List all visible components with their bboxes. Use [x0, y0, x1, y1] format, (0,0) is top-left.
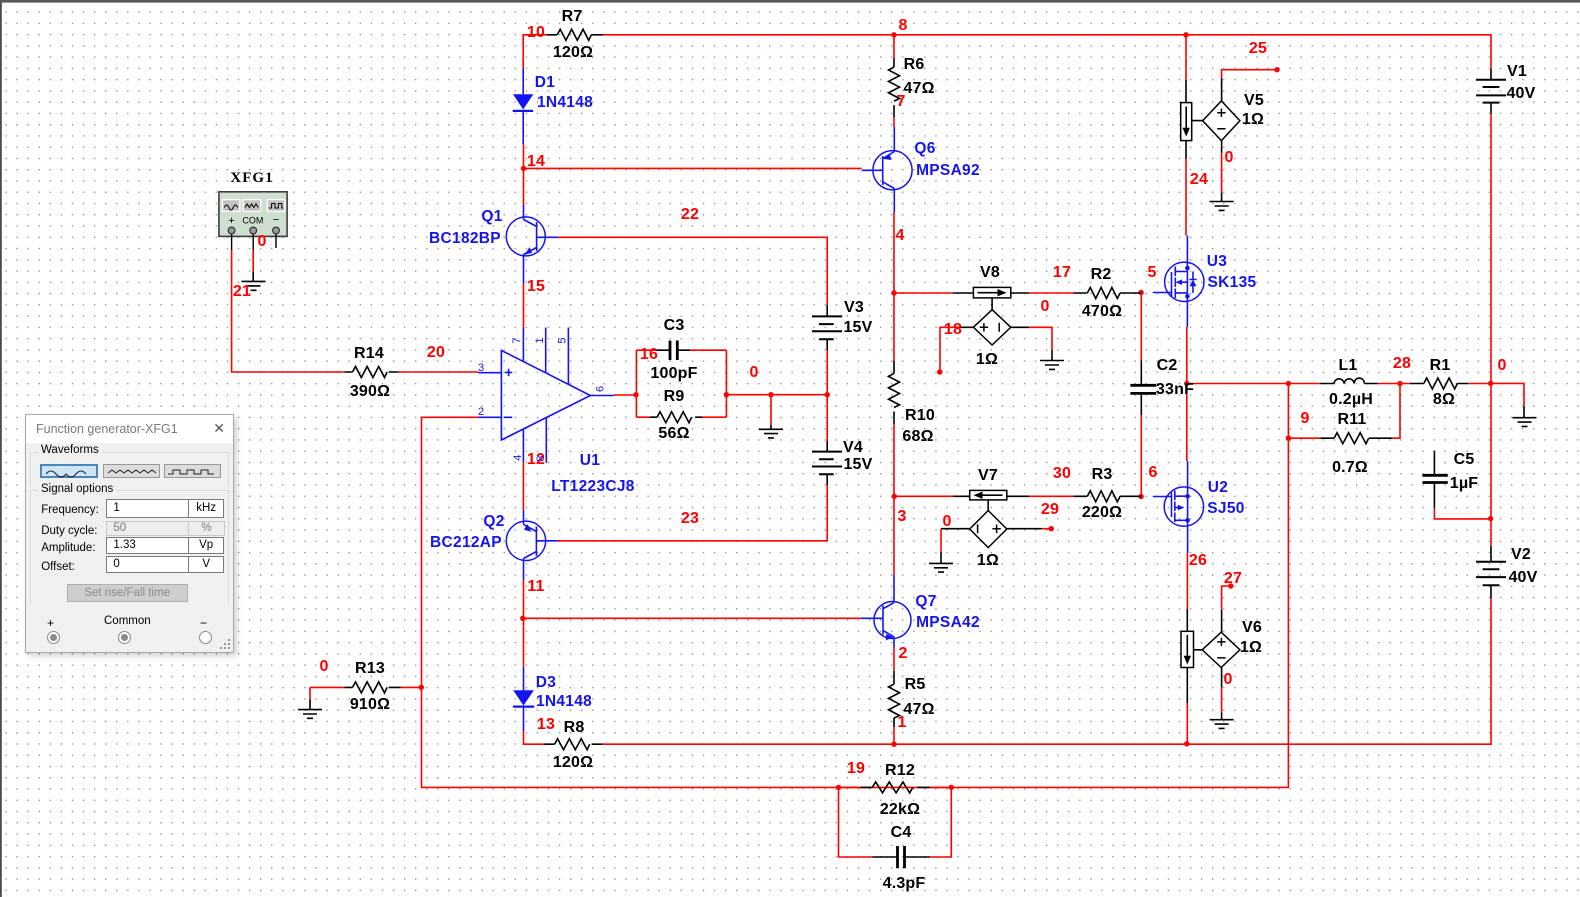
svg-text:6: 6: [595, 386, 607, 392]
svg-text:R3: R3: [1092, 466, 1113, 483]
svg-text:R5: R5: [905, 676, 926, 693]
svg-text:6: 6: [1148, 464, 1157, 481]
label R14: [350, 345, 390, 400]
svg-text:Q6: Q6: [914, 140, 935, 157]
svg-text:COM: COM: [242, 216, 263, 226]
wire net 5 R2 to U3 gate and C2: [1140, 293, 1142, 361]
label U3: [1207, 253, 1257, 291]
svg-text:V7: V7: [978, 467, 998, 484]
label U1: [551, 452, 634, 495]
ccvs V8 diamond: [959, 310, 1029, 345]
svg-text:V6: V6: [1242, 619, 1262, 636]
svg-text:27: 27: [1224, 570, 1242, 587]
wire V1 bottom down right rail: [1490, 114, 1492, 546]
svg-text:33nF: 33nF: [1156, 381, 1194, 398]
label R7: [553, 8, 593, 61]
svg-text:1: 1: [534, 337, 546, 343]
ground at V7: [929, 552, 953, 572]
wire net 14: [524, 144, 862, 205]
node 11 junction: [520, 616, 525, 621]
svg-text:C3: C3: [664, 317, 685, 334]
label R12: [880, 762, 920, 818]
svg-text:15V: 15V: [843, 319, 872, 336]
svg-text:V5: V5: [1244, 92, 1264, 109]
node 9 junction top: [1286, 381, 1291, 386]
svg-text:L1: L1: [1338, 357, 1357, 374]
svg-text:470Ω: 470Ω: [1082, 303, 1122, 320]
svg-text:56Ω: 56Ω: [658, 425, 689, 442]
resistor R12: [861, 782, 931, 793]
resistor R1: [1410, 378, 1468, 389]
ccvs V7 diamond: [941, 511, 1042, 548]
svg-text:R6: R6: [904, 56, 925, 73]
svg-text:29: 29: [1041, 501, 1059, 518]
svg-text:10: 10: [527, 24, 545, 41]
svg-text:Q1: Q1: [481, 208, 502, 225]
resistor R5: [889, 671, 900, 727]
svg-text:0.7Ω: 0.7Ω: [1332, 459, 1368, 476]
label R2: [1082, 266, 1122, 320]
svg-text:XFG1: XFG1: [230, 170, 273, 186]
wire C5 bottom: [1434, 508, 1490, 519]
label R5: [903, 676, 934, 718]
svg-text:Q2: Q2: [483, 513, 504, 530]
svg-text:40V: 40V: [1508, 569, 1537, 586]
node V3 V4 junction: [825, 392, 830, 397]
net 25 endpoint: [1274, 67, 1279, 72]
inductor L1: [1320, 378, 1378, 383]
top toolbar edge bar: [0, 0, 1580, 3]
label Q7: [915, 593, 980, 631]
svg-text:23: 23: [681, 510, 699, 527]
resistor R9: [650, 412, 702, 423]
transistor Q7: [861, 575, 911, 648]
wire net 15: [523, 284, 525, 328]
svg-text:Q7: Q7: [915, 593, 936, 610]
node 1 junction V6: [1184, 741, 1189, 746]
ground at V5: [1210, 193, 1234, 211]
svg-text:0: 0: [257, 233, 266, 250]
wire red lead R12: [839, 786, 952, 788]
svg-text:13: 13: [537, 716, 555, 733]
wire net 26 U2 source to V6 sense: [1186, 553, 1188, 744]
wire net 8 top rail: [523, 35, 1491, 69]
instrument XFG1: [219, 170, 287, 250]
mosfet U2: [1153, 461, 1204, 553]
svg-text:120Ω: 120Ω: [553, 44, 593, 61]
svg-text:1µF: 1µF: [1450, 475, 1479, 492]
label R13: [350, 660, 390, 713]
svg-text:11: 11: [527, 578, 544, 595]
wire V5 minus to ground: [1221, 153, 1223, 193]
dialog Function generator-XFG1: [25, 414, 234, 653]
battery V4: [812, 441, 842, 485]
svg-text:−: −: [273, 214, 279, 226]
node 9 junction R11: [1286, 436, 1291, 441]
svg-text:+: +: [228, 215, 234, 227]
svg-text:14: 14: [527, 153, 545, 170]
wire net 3 R10 Q7 V7: [894, 424, 953, 575]
svg-text:R12: R12: [885, 762, 915, 779]
svg-text:1: 1: [897, 714, 906, 731]
svg-text:4: 4: [512, 455, 524, 461]
resistor R13: [344, 682, 400, 693]
svg-text:22kΩ: 22kΩ: [880, 801, 920, 818]
label R3: [1082, 466, 1122, 521]
svg-text:V8: V8: [980, 264, 1000, 281]
svg-text:910Ω: 910Ω: [350, 696, 390, 713]
svg-text:C2: C2: [1157, 357, 1178, 374]
transistor Q2: [506, 511, 557, 580]
wire XFG1 com: [252, 250, 254, 272]
resistor R2: [1074, 288, 1142, 299]
svg-text:17: 17: [1053, 264, 1071, 281]
svg-text:SJ50: SJ50: [1207, 500, 1244, 517]
node 3 junction: [892, 494, 897, 499]
svg-text:8Ω: 8Ω: [1433, 391, 1455, 408]
node R13 junction: [419, 685, 424, 690]
capacitor C3: [656, 341, 690, 361]
ccvs V7 sense box: [953, 490, 1029, 510]
wire R13 to ground and node 9: [310, 687, 422, 699]
label R1: [1430, 357, 1456, 408]
op-amp U1: [478, 328, 613, 463]
svg-text:0.2µH: 0.2µH: [1329, 391, 1373, 408]
diode D3: [513, 667, 534, 731]
svg-text:C4: C4: [891, 824, 912, 841]
node 1 junction R5: [891, 742, 896, 747]
label R11: [1332, 411, 1368, 476]
label V2: [1508, 546, 1537, 586]
svg-text:5: 5: [556, 337, 568, 343]
wire net 18 stub V8 ctrl: [940, 327, 959, 372]
svg-text:C5: C5: [1454, 451, 1475, 468]
svg-text:5: 5: [1147, 264, 1156, 281]
label V7: [977, 467, 999, 569]
svg-text:V1: V1: [1507, 63, 1527, 80]
label V1: [1506, 63, 1535, 102]
svg-text:BC212AP: BC212AP: [430, 534, 502, 551]
svg-text:D3: D3: [536, 674, 556, 691]
node 6 junction: [1138, 494, 1143, 499]
svg-text:0: 0: [1497, 357, 1506, 374]
node 5 junction: [1138, 290, 1143, 295]
label U2: [1207, 479, 1244, 517]
node junction V5 column: [1183, 32, 1188, 37]
svg-text:7: 7: [896, 93, 905, 110]
transistor Q1: [506, 205, 557, 284]
svg-text:MPSA92: MPSA92: [916, 162, 980, 179]
svg-text:4.3pF: 4.3pF: [883, 875, 926, 892]
svg-text:R9: R9: [664, 388, 685, 405]
node 14 junction: [521, 166, 526, 171]
node gnd tap junction: [768, 392, 773, 397]
svg-text:3: 3: [897, 508, 906, 525]
wire net 25 stub: [1222, 70, 1277, 78]
svg-text:MPSA42: MPSA42: [916, 614, 980, 631]
label C3: [650, 317, 697, 382]
ccvs V5 diamond: [1203, 78, 1240, 153]
net 18 endpoint: [937, 369, 942, 374]
label Q2: [430, 513, 505, 551]
svg-text:R2: R2: [1091, 266, 1112, 283]
wire V8 right to ground: [1029, 327, 1052, 350]
svg-text:1Ω: 1Ω: [1242, 111, 1264, 128]
ground at R1: [1513, 406, 1537, 426]
svg-text:20: 20: [427, 344, 445, 361]
wire net 22 Q1 base to V3: [558, 237, 828, 304]
diode D1: [513, 68, 534, 144]
ccvs V8 sense box: [953, 287, 1029, 309]
svg-text:R11: R11: [1337, 411, 1366, 428]
wire XFG1 plus to R14: [232, 250, 345, 372]
svg-text:2: 2: [898, 645, 907, 662]
label R9: [658, 388, 689, 442]
wire R5 bottom: [893, 727, 895, 744]
svg-text:0: 0: [1223, 671, 1232, 688]
wire net 20 R14 to opamp pin3: [399, 371, 479, 373]
wire net 7 R6 to Q6: [893, 117, 895, 127]
svg-text:120Ω: 120Ω: [553, 754, 593, 771]
ccvs V6 sense box: [1181, 609, 1202, 703]
svg-text:2: 2: [478, 406, 484, 418]
label R6: [903, 56, 934, 97]
node 28 junction: [1397, 381, 1402, 386]
capacitor C5: [1422, 451, 1447, 508]
svg-text:68Ω: 68Ω: [902, 428, 933, 445]
svg-text:15V: 15V: [843, 456, 872, 473]
node 4 junction: [891, 290, 896, 295]
svg-text:R10: R10: [905, 407, 935, 424]
wire net 17 V8 to R2: [1029, 292, 1074, 294]
svg-text:LT1223CJ8: LT1223CJ8: [551, 478, 634, 495]
svg-text:26: 26: [1189, 552, 1207, 569]
svg-text:15: 15: [527, 278, 545, 295]
wire net 9 feedback loop: [422, 384, 1289, 788]
label Q1: [429, 208, 503, 247]
battery V2: [1476, 546, 1506, 598]
svg-text:18: 18: [944, 321, 962, 338]
svg-text:U1: U1: [580, 452, 600, 469]
svg-text:8: 8: [898, 17, 907, 34]
svg-text:SK135: SK135: [1208, 274, 1257, 291]
svg-text:8: 8: [535, 455, 547, 461]
svg-text:R13: R13: [355, 660, 385, 677]
ccvs V6 diamond: [1202, 610, 1240, 688]
battery V3: [812, 305, 842, 350]
svg-text:3: 3: [478, 362, 484, 374]
net 27 endpoint: [1228, 583, 1233, 588]
svg-text:R7: R7: [562, 8, 583, 25]
svg-text:0: 0: [942, 513, 951, 530]
node RC right junction: [724, 392, 729, 397]
label C2: [1156, 357, 1194, 398]
resistor R11: [1320, 433, 1392, 444]
svg-text:21: 21: [233, 283, 251, 300]
svg-text:9: 9: [1300, 410, 1309, 427]
svg-text:1Ω: 1Ω: [976, 351, 998, 368]
capacitor C4: [872, 846, 930, 868]
node C5 junction: [1488, 516, 1493, 521]
label V8: [976, 264, 1000, 368]
node 19 junction left: [836, 785, 841, 790]
wire net 24 V5 sense chain: [1185, 35, 1187, 236]
svg-text:1Ω: 1Ω: [977, 552, 999, 569]
left canvas border: [0, 2, 2, 897]
svg-text:22: 22: [681, 206, 699, 223]
svg-text:28: 28: [1393, 355, 1411, 372]
label C5: [1450, 451, 1479, 492]
svg-text:R14: R14: [354, 345, 384, 362]
svg-text:7: 7: [511, 337, 523, 343]
svg-text:1N4148: 1N4148: [536, 693, 592, 710]
svg-text:1N4148: 1N4148: [537, 94, 593, 111]
svg-text:V3: V3: [844, 299, 864, 316]
wire net 4 Q6 collector node: [894, 212, 953, 360]
label R10: [902, 407, 935, 445]
ground at R13: [298, 700, 322, 719]
wire V7 left to ground: [940, 529, 942, 552]
resistor R8: [545, 739, 603, 750]
ground at XFG1 com: [242, 272, 266, 291]
wire net 29 stub V7 right: [1042, 528, 1052, 530]
wire output row to L1 R1: [1187, 383, 1524, 406]
svg-text:30: 30: [1053, 465, 1071, 482]
wire net 13 D3 to R8: [524, 731, 545, 744]
wire net 27 stub: [1222, 586, 1231, 610]
net 29 endpoint: [1049, 526, 1054, 531]
svg-text:0: 0: [1224, 149, 1233, 166]
svg-text:25: 25: [1249, 40, 1267, 57]
resistor R6: [889, 58, 900, 117]
wire U3 source to U2 drain: [1186, 327, 1188, 461]
capacitor C2: [1130, 360, 1156, 415]
svg-text:V4: V4: [843, 439, 863, 456]
wire net 2 Q7 emitter to R5: [893, 648, 895, 671]
wire net 6 C2 to R3 U2 gate: [1140, 415, 1142, 497]
label C4: [883, 824, 926, 892]
battery V1: [1476, 69, 1506, 114]
label Q6: [914, 140, 980, 179]
wire net 0 opamp out row: [614, 350, 828, 425]
node 0 junction at V1 column: [1488, 381, 1493, 386]
svg-text:19: 19: [847, 760, 865, 777]
svg-text:R8: R8: [564, 719, 585, 736]
label V3: [843, 299, 872, 336]
wire net 1 bottom rail: [602, 598, 1491, 744]
svg-text:47Ω: 47Ω: [903, 701, 934, 718]
resistor R3: [1074, 491, 1142, 502]
svg-text:4: 4: [895, 227, 904, 244]
node 8 junction: [891, 32, 896, 37]
svg-text:0: 0: [319, 658, 328, 675]
ground at opamp output: [759, 425, 783, 438]
wire net 30 V7 to R3: [1029, 495, 1074, 497]
svg-text:0: 0: [749, 364, 758, 381]
ccvs V5 sense box: [1181, 80, 1203, 159]
transistor Q6: [862, 127, 912, 212]
node 19 junction right: [949, 785, 954, 790]
resistor R14: [344, 367, 399, 378]
mosfet U3: [1153, 236, 1204, 328]
wire V3 bottom V4 top: [826, 350, 828, 441]
svg-text:24: 24: [1190, 171, 1208, 188]
svg-text:U3: U3: [1207, 253, 1227, 270]
ground at V8: [1040, 350, 1064, 369]
svg-text:47Ω: 47Ω: [903, 80, 934, 97]
svg-text:220Ω: 220Ω: [1082, 504, 1122, 521]
label L1: [1329, 357, 1373, 408]
resistor R10: [889, 360, 900, 424]
label V4: [843, 439, 873, 473]
svg-text:U2: U2: [1208, 479, 1228, 496]
svg-text:16: 16: [640, 346, 658, 363]
label R8: [553, 719, 593, 771]
label D1: [535, 74, 593, 111]
label V5: [1242, 92, 1264, 128]
svg-text:R1: R1: [1430, 357, 1451, 374]
svg-text:BC182BP: BC182BP: [429, 230, 501, 247]
resistor R7: [547, 29, 603, 40]
wire R11 branch: [1288, 384, 1400, 439]
svg-text:40V: 40V: [1506, 85, 1535, 102]
svg-text:1Ω: 1Ω: [1240, 639, 1262, 656]
wire net 12 opamp pin4 to Q2: [522, 462, 524, 511]
node out junction: [633, 392, 638, 397]
wire net 19 taps to R12 C4: [839, 787, 952, 857]
svg-text:D1: D1: [535, 74, 555, 91]
svg-text:V2: V2: [1511, 546, 1531, 563]
node output junction at U3/U2 column: [1184, 381, 1189, 386]
svg-text:0: 0: [1040, 298, 1049, 315]
wire V6 minus to ground: [1221, 688, 1223, 713]
label V6: [1240, 619, 1262, 656]
svg-text:390Ω: 390Ω: [350, 383, 390, 400]
wire net 11 Q2 emitter to Q7 base and D3: [524, 580, 862, 667]
ground at V6: [1210, 713, 1234, 729]
label D3: [536, 674, 592, 710]
wire net 23 Q2 base to V4: [558, 485, 828, 541]
svg-text:100pF: 100pF: [650, 365, 697, 382]
